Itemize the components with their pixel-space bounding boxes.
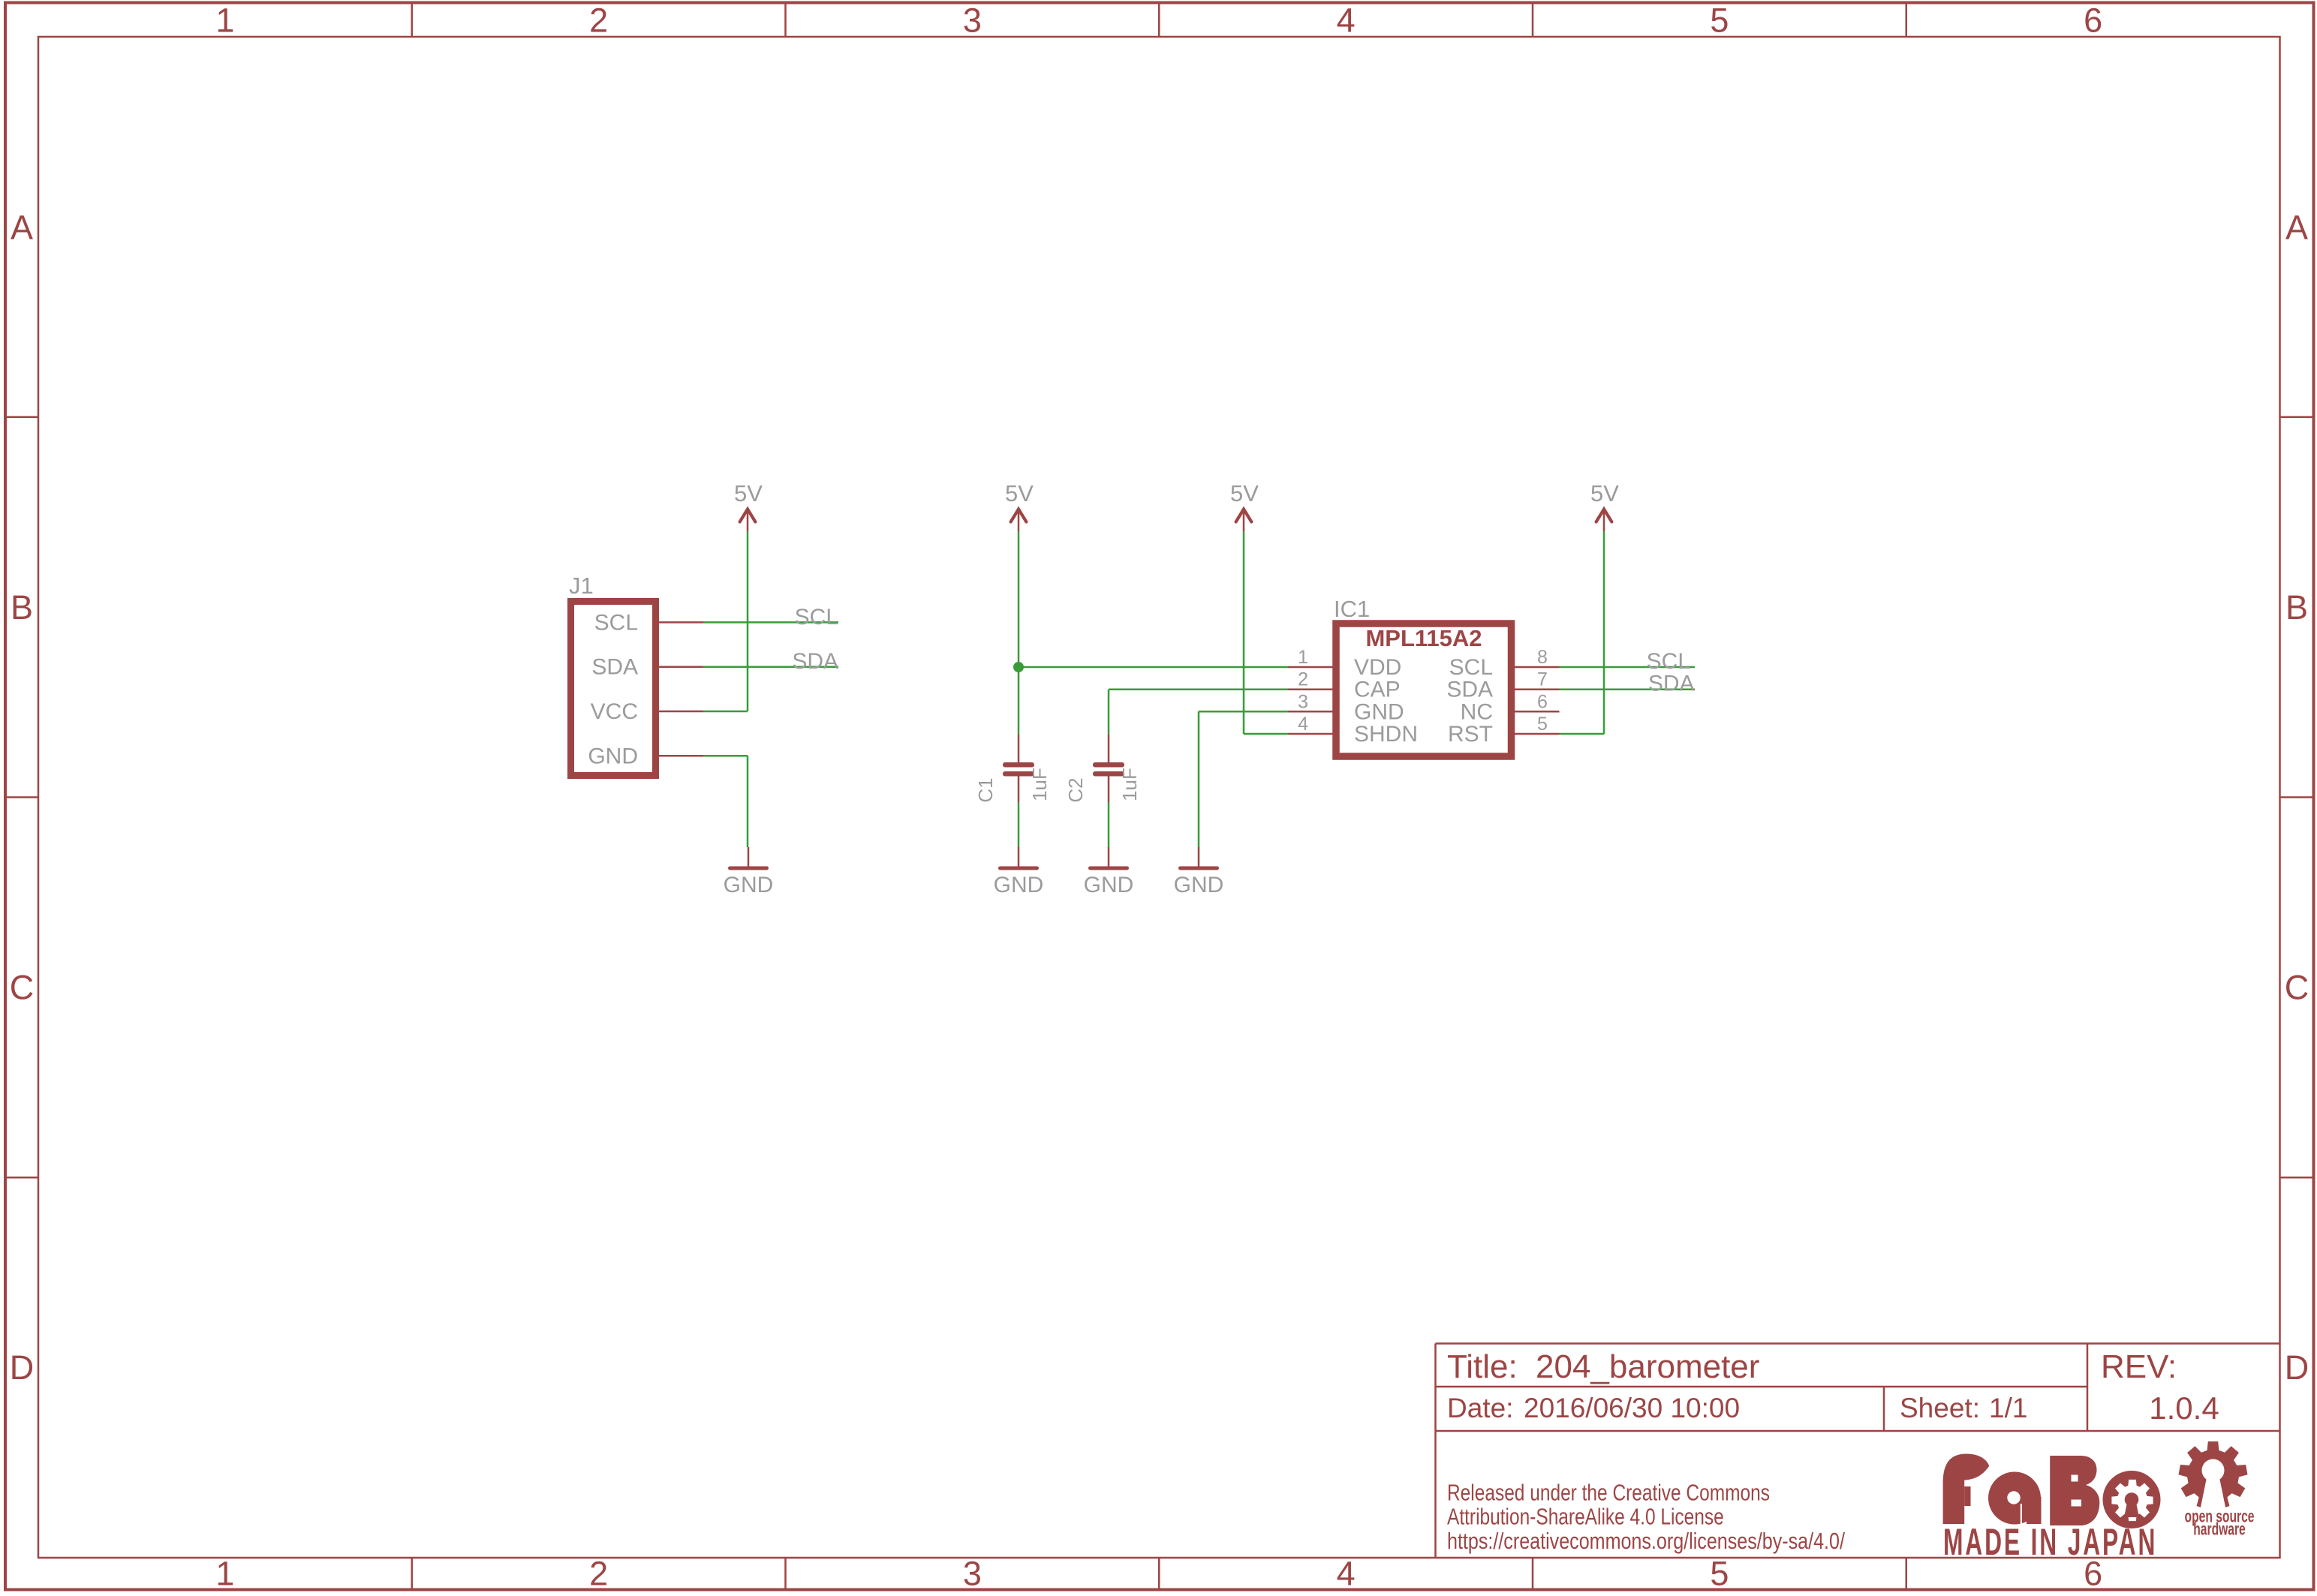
svg-text:RST: RST [1448,722,1493,747]
svg-text:A: A [2285,208,2308,246]
ground symbol GND [748,847,750,868]
open source hardware text [2185,1507,2255,1527]
svg-text:204_barometer: 204_barometer [1536,1348,1759,1385]
svg-text:GND: GND [994,873,1044,897]
wire 5V to VDD rail [1018,531,1020,735]
svg-text:5V: 5V [734,480,763,506]
wire VDD to IC pin 1 [1019,666,1288,669]
svg-text:2: 2 [1298,669,1308,690]
svg-text:C1: C1 [974,777,997,802]
svg-text:GND: GND [588,744,638,768]
svg-text:SCL: SCL [795,605,838,630]
svg-text:B: B [11,588,33,627]
wire CAP net [1109,690,1288,735]
wire J1 VCC to 5V [703,531,748,711]
FaBo logo letter o with gear [2103,1471,2161,1528]
svg-text:C: C [2285,968,2309,1006]
svg-text:CAP: CAP [1354,678,1401,702]
svg-text:MADE IN JAPAN: MADE IN JAPAN [1943,1521,2157,1563]
svg-text:SDA: SDA [591,655,638,680]
svg-text:SHDN: SHDN [1354,722,1418,747]
svg-text:1.0.4: 1.0.4 [2149,1390,2219,1426]
MADE IN JAPAN text [1943,1521,2157,1563]
frame row ticks right [2280,417,2314,1178]
svg-text:SDA: SDA [1446,678,1493,702]
J1 pin names [588,610,638,768]
svg-text:SCL: SCL [1449,655,1493,680]
svg-text:MPL115A2: MPL115A2 [1365,625,1482,651]
svg-text:SCL: SCL [594,610,638,635]
ground symbol GND [1108,847,1110,868]
wire J1 SDA [703,666,838,668]
svg-text:REV:: REV: [2101,1348,2177,1385]
svg-text:D: D [2285,1348,2309,1387]
svg-text:A: A [11,208,33,246]
IC1 right pin stubs 8-5 [1512,667,1560,734]
frame column numbers top [215,2,2102,40]
frame row letters left [10,208,35,1387]
svg-text:GND: GND [1174,873,1224,897]
IC1 MPL115A2 [1336,624,1512,756]
svg-text:3: 3 [963,2,982,40]
capacitor C1 [1018,735,1020,802]
FaBo logo letter a [1988,1472,2041,1525]
IC1 left pin stubs 1-4 [1288,667,1336,734]
svg-text:hardware: hardware [2193,1520,2246,1540]
capacitor C2 [1108,735,1110,802]
svg-text:GND: GND [1084,873,1134,897]
svg-text:Sheet:: Sheet: [1900,1393,1980,1423]
svg-text:GND: GND [724,873,774,897]
license text [1447,1480,1770,1505]
open source hardware gear logo [2179,1441,2248,1510]
svg-text:1: 1 [215,2,234,40]
svg-text:C: C [10,968,35,1006]
svg-text:5V: 5V [1005,480,1034,506]
svg-text:1/1: 1/1 [1989,1393,2027,1423]
svg-text:VCC: VCC [591,699,638,724]
IC1 left pin names [1354,655,1418,747]
IC1 right pin numbers [1537,647,1548,735]
wire IC SDA out [1560,688,1696,690]
svg-text:https://creativecommons.org/li: https://creativecommons.org/licenses/by-… [1447,1527,1845,1553]
connector J1 [571,602,656,776]
svg-text:VDD: VDD [1354,655,1401,680]
wire C1 to GND [1018,802,1020,847]
ground symbol GND [1198,847,1200,868]
svg-text:D: D [10,1348,35,1387]
wire IC SCL out [1560,666,1696,669]
wire RST to 5V [1560,531,1605,734]
svg-text:6: 6 [1537,691,1548,712]
svg-text:5: 5 [1710,2,1729,40]
svg-text:4: 4 [1298,714,1308,735]
wire 5V to SHDN [1244,531,1288,734]
svg-text:2: 2 [589,2,608,40]
title block grid lines [1436,1344,2280,1558]
svg-text:GND: GND [1354,699,1404,724]
wire J1 GND down [703,756,748,847]
svg-text:7: 7 [1537,669,1548,690]
svg-text:1uF: 1uF [1118,768,1141,801]
frame column numbers bottom [215,1555,2102,1593]
frame column ticks top [412,3,1906,38]
wire C2 to GND [1108,802,1110,847]
svg-text:SDA: SDA [1648,672,1695,696]
svg-text:Date:: Date: [1447,1393,1513,1423]
svg-text:6: 6 [2084,2,2102,40]
svg-text:SCL: SCL [1647,649,1690,674]
wire IC GND to ground [1199,711,1288,847]
svg-text:5: 5 [1537,714,1548,735]
FaBo logo letter B [2050,1456,2099,1525]
svg-text:1: 1 [1298,647,1308,668]
ground symbol GND [1018,847,1020,868]
svg-text:Title:: Title: [1447,1348,1518,1385]
IC1 left pin numbers [1298,647,1308,735]
svg-text:NC: NC [1461,699,1493,724]
junction dot VDD/5V/C1 [1013,662,1024,672]
svg-text:SDA: SDA [792,649,838,674]
svg-text:4: 4 [1337,1555,1356,1593]
svg-text:2: 2 [589,1555,608,1593]
IC1 right pin names [1446,655,1493,747]
J1 pin stubs [655,622,703,756]
svg-text:IC1: IC1 [1334,596,1370,622]
svg-text:5V: 5V [1230,480,1259,506]
svg-text:3: 3 [1298,691,1308,712]
frame column ticks bottom [412,1558,1906,1590]
svg-text:5V: 5V [1590,480,1619,506]
svg-text:3: 3 [963,1555,982,1593]
svg-text:J1: J1 [569,573,594,599]
frame row ticks left [5,417,38,1178]
svg-text:1uF: 1uF [1028,768,1051,801]
svg-text:C2: C2 [1064,777,1087,802]
svg-text:5: 5 [1710,1555,1729,1593]
FaBo logo letter f [1943,1454,1989,1525]
svg-text:B: B [2285,588,2308,627]
svg-text:2016/06/30 10:00: 2016/06/30 10:00 [1524,1393,1740,1423]
wire J1 SCL [703,621,838,624]
svg-text:8: 8 [1537,647,1548,668]
svg-text:4: 4 [1337,2,1356,40]
svg-text:Released under the Creative Co: Released under the Creative Commons [1447,1480,1770,1505]
frame row letters right [2285,208,2309,1387]
svg-text:1: 1 [215,1555,234,1593]
svg-text:Attribution-ShareAlike 4.0 Lic: Attribution-ShareAlike 4.0 License [1447,1504,1724,1529]
